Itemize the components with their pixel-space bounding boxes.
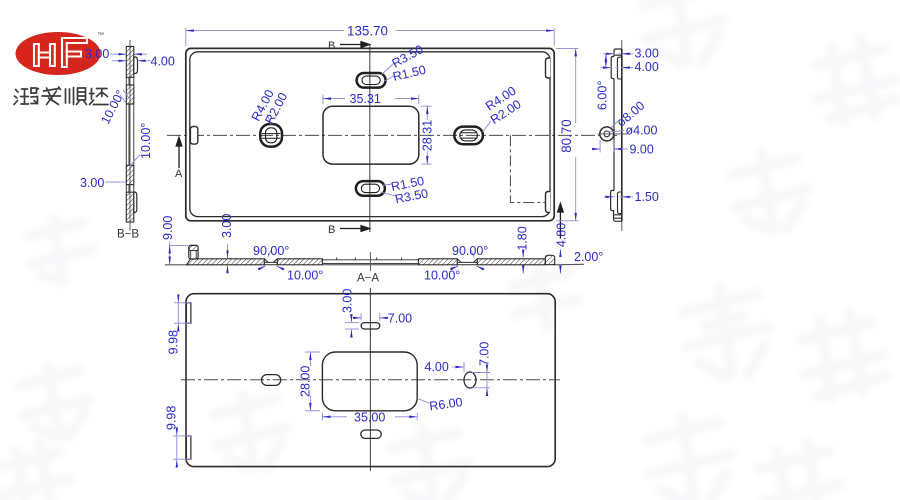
outer rect <box>186 48 554 220</box>
top cap <box>614 49 622 55</box>
thread lines in ovals <box>262 133 477 139</box>
svg-text:3.00: 3.00 <box>635 47 659 61</box>
4.00 <box>452 366 464 368</box>
10 deg ticks <box>258 266 266 270</box>
dim 135.70 ext+line <box>185 28 187 46</box>
leaders top oval <box>381 63 394 81</box>
svg-text:B: B <box>328 40 335 52</box>
svg-text:B: B <box>328 224 335 236</box>
left slot <box>262 375 281 386</box>
bottom slot <box>361 430 381 438</box>
bottom cap <box>614 215 622 221</box>
hatched segments <box>126 47 134 223</box>
svg-text:135.70: 135.70 <box>347 24 388 39</box>
dim 1.80 / 4.80 <box>522 250 524 258</box>
svg-text:9.00: 9.00 <box>630 143 654 157</box>
7.00 slot <box>360 313 362 321</box>
right hole (vertical oval) <box>464 372 476 388</box>
section arrow B top <box>340 42 370 48</box>
logo chinese text 鸿发顺达 <box>14 87 108 105</box>
dimple notches <box>264 259 477 265</box>
leader dia 4 <box>609 131 625 133</box>
upright tab at left <box>189 245 198 259</box>
leader right oval <box>483 121 492 132</box>
A-A dimensions <box>161 214 603 283</box>
svg-text:ø4.00: ø4.00 <box>626 124 658 138</box>
outline <box>186 294 555 467</box>
svg-text:3.00: 3.00 <box>80 176 104 190</box>
boss circles <box>600 127 614 141</box>
horizontal centerline <box>181 379 560 381</box>
svg-text:A−A: A−A <box>357 273 379 285</box>
B-B dimensions <box>80 47 175 190</box>
section arrow A right <box>558 204 564 239</box>
vertical centerline full <box>369 288 371 471</box>
4.00 : tab extent <box>601 67 611 69</box>
svg-text:4.80: 4.80 <box>555 223 569 247</box>
svg-text:35.00: 35.00 <box>354 411 385 425</box>
vertical section line B <box>369 45 371 233</box>
1.50 <box>604 196 613 198</box>
9.98 top <box>174 302 191 304</box>
plate right heavy edge <box>621 49 623 221</box>
thin right extension <box>555 263 584 266</box>
svg-text:9.00: 9.00 <box>161 216 175 240</box>
svg-text:10.00°: 10.00° <box>287 269 323 283</box>
svg-text:28.31: 28.31 <box>421 120 435 151</box>
left edge top tab <box>186 303 191 323</box>
horizontal centerline <box>167 134 617 136</box>
leader dia 8 <box>611 119 620 128</box>
gap thin lines <box>126 77 134 192</box>
svg-text:2.00°: 2.00° <box>574 250 603 264</box>
phantom line to bottom-right tab <box>510 135 546 202</box>
svg-text:1.80: 1.80 <box>516 226 530 250</box>
section arrow B bottom <box>340 226 370 232</box>
left oval hole (vertical) <box>260 124 282 147</box>
28.00 <box>305 351 320 353</box>
right view top tab <box>611 57 614 79</box>
logo HF <box>16 32 105 75</box>
svg-text:1.50: 1.50 <box>635 190 659 204</box>
dim 35.31 <box>322 95 324 105</box>
svg-text:4.00: 4.00 <box>635 60 659 74</box>
svg-text:90.00°: 90.00° <box>253 244 289 258</box>
svg-text:10.00°: 10.00° <box>139 123 153 159</box>
svg-text:35.31: 35.31 <box>350 92 381 106</box>
right view bottom tab <box>611 190 614 214</box>
R6.00 leader <box>418 399 430 404</box>
svg-text:3.00: 3.00 <box>85 47 109 61</box>
right top tab <box>546 58 551 78</box>
svg-text:B−B: B−B <box>117 229 139 241</box>
leader left oval <box>267 114 271 125</box>
svg-text:28.00: 28.00 <box>299 366 313 397</box>
left edge tab <box>190 127 197 145</box>
svg-text:7.00: 7.00 <box>478 342 492 366</box>
cutout <box>322 352 417 411</box>
svg-text:80.70: 80.70 <box>559 119 574 153</box>
left edge bottom tab <box>186 436 191 459</box>
centerline extensions <box>621 40 623 231</box>
svg-text:9.98: 9.98 <box>167 330 181 354</box>
center cutout <box>323 106 419 164</box>
svg-text:9.98: 9.98 <box>165 406 179 430</box>
cutout gap thin lines <box>322 258 418 265</box>
right view dimensions <box>592 47 659 204</box>
hatched strip segments <box>187 255 555 264</box>
svg-text:7.00: 7.00 <box>388 311 412 325</box>
top slot <box>361 323 380 329</box>
leaders bottom oval <box>380 184 396 196</box>
svg-text:A: A <box>175 168 183 180</box>
svg-text:90.00°: 90.00° <box>452 244 488 258</box>
svg-text:4.00: 4.00 <box>425 360 449 374</box>
9.98 bottom <box>173 435 191 437</box>
9.00 <box>599 140 601 153</box>
dim 80.70 <box>556 47 579 49</box>
right end tab block <box>545 255 554 264</box>
35.00 <box>321 413 323 421</box>
right bottom tab <box>546 192 551 213</box>
3.00 slot <box>345 322 359 324</box>
svg-text:4.00: 4.00 <box>151 55 175 69</box>
section arrow A left <box>176 138 182 169</box>
svg-text:6.00°: 6.00° <box>596 81 610 110</box>
3.00 <box>227 244 229 258</box>
svg-text:™: ™ <box>97 32 104 39</box>
dim 28.31 <box>421 105 432 107</box>
bottom oval hole <box>356 181 385 196</box>
7.00 right <box>472 372 490 374</box>
svg-text:3.00: 3.00 <box>341 289 355 313</box>
6.00 deg vertical dim <box>605 54 607 58</box>
top tab B-B <box>134 57 138 74</box>
90 deg leaders <box>268 250 474 257</box>
9.00 <box>169 242 171 264</box>
thin left extension <box>165 264 187 266</box>
centerline <box>129 40 131 231</box>
plate left edge segments <box>613 55 615 190</box>
right oval hole <box>454 127 483 145</box>
bottom tab B-B <box>134 192 137 213</box>
centerline tick <box>369 252 371 271</box>
svg-text:10.00°: 10.00° <box>424 269 460 283</box>
3.00 : plate thickness at cap <box>603 53 614 55</box>
svg-text:3.00: 3.00 <box>220 214 234 238</box>
bottom view dimensions <box>165 289 492 466</box>
inner rect <box>190 52 550 217</box>
top oval hole <box>357 73 386 88</box>
